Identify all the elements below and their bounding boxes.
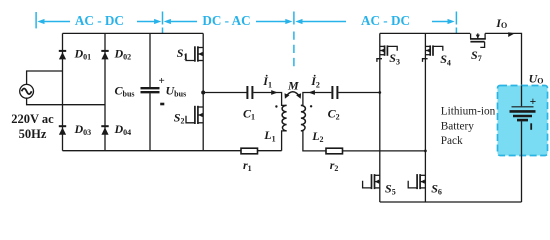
section divider 2 (dashed) <box>293 12 295 25</box>
mosfet S6 <box>408 174 442 196</box>
section arrow right of DC-AC label <box>256 19 293 24</box>
current arrow Io <box>508 32 515 37</box>
svg-text:DC - AC: DC - AC <box>202 13 250 28</box>
section divider tick left <box>35 12 37 28</box>
current arrow I2 <box>308 90 315 95</box>
wire L2 bottom to r2 <box>301 131 326 151</box>
inductor L2 <box>301 105 306 130</box>
svg-text:M: M <box>287 79 299 93</box>
inverter leg <box>202 33 204 150</box>
AC source <box>20 84 34 98</box>
section divider 1 (dashed) <box>162 12 164 25</box>
wire AC bottom to bridge right leg <box>27 98 105 105</box>
resistor r1 <box>241 148 258 173</box>
capacitor C2 <box>332 86 337 99</box>
svg-text:Pack: Pack <box>441 135 463 147</box>
capacitor Cbus rail upper <box>149 33 151 87</box>
node r2 junction <box>424 150 427 153</box>
battery wire bottom <box>521 121 523 202</box>
wire C1 to L1 <box>253 93 286 106</box>
node C2 junction <box>378 91 381 94</box>
mosfet S1 <box>177 46 204 62</box>
node inverter midpoint <box>201 91 205 95</box>
capacitor Cbus plates <box>141 88 160 92</box>
svg-text:Battery: Battery <box>441 120 475 132</box>
mosfet S2 <box>174 106 203 126</box>
wire L2 top to C2 <box>301 93 332 106</box>
battery wire top <box>521 86 523 107</box>
section arrow right of AC-DC right label <box>432 19 455 24</box>
top rail left section <box>63 32 204 34</box>
mosfet S7 <box>470 33 486 63</box>
capacitor C1 <box>247 86 252 99</box>
rectifier left leg <box>379 33 381 202</box>
diode D03 <box>59 122 91 137</box>
diode D04 <box>101 122 131 137</box>
mosfet S5 <box>363 174 396 196</box>
mosfet S3 <box>377 45 400 66</box>
current arrow I1 <box>271 90 278 95</box>
top rail right section right part <box>485 33 521 106</box>
wire inverter midpoint to C1 <box>203 92 246 94</box>
svg-text:220V ac: 220V ac <box>11 112 54 126</box>
diode D02 <box>101 46 131 61</box>
bridge right leg <box>104 33 106 150</box>
svg-text:50Hz: 50Hz <box>19 127 47 141</box>
section arrow left of AC-DC right label <box>295 19 346 24</box>
battery pack box <box>498 86 548 156</box>
mosfet S4 <box>423 45 451 67</box>
top rail right section left part <box>380 32 470 34</box>
phase dot primary <box>275 105 277 107</box>
wire L1 bottom <box>282 131 287 151</box>
label - of Ubus <box>160 103 164 106</box>
diode D01 <box>59 46 91 61</box>
capacitor Cbus rail lower <box>149 93 151 151</box>
section divider 3 (dashed) <box>455 12 457 25</box>
wire C2 to rectifier left leg <box>338 92 380 94</box>
battery - label <box>530 123 532 130</box>
svg-text:AC - DC: AC - DC <box>361 13 410 28</box>
mutual coupling arc M <box>285 79 302 99</box>
wire r2 to rectifier right leg <box>343 150 426 152</box>
bridge left leg <box>62 33 64 150</box>
battery cell bars <box>510 107 536 120</box>
svg-text:+: + <box>530 96 537 108</box>
inductor L1 <box>282 105 287 130</box>
wire AC top to bridge left leg <box>27 71 63 85</box>
section arrow left of DC-AC label <box>164 19 197 24</box>
resistor r2 <box>326 148 343 173</box>
svg-text:Lithium-ion: Lithium-ion <box>441 106 496 118</box>
rectifier right leg <box>424 33 426 202</box>
section arrow right of AC-DC label <box>137 19 161 24</box>
section arrow left of AC-DC label <box>37 19 70 24</box>
svg-text:+: + <box>159 75 165 87</box>
bottom rail right section <box>380 201 522 203</box>
bottom rail left section <box>63 150 282 152</box>
svg-text:AC - DC: AC - DC <box>75 13 124 28</box>
phase dot secondary <box>310 105 312 107</box>
